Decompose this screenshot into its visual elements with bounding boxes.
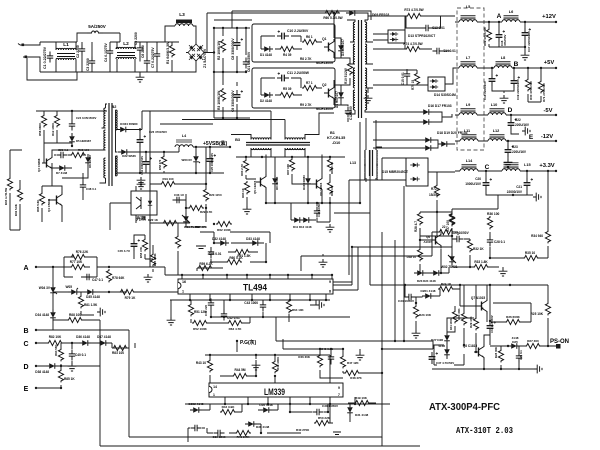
wire below TL494 xyxy=(192,299,350,323)
wire bus dup xyxy=(207,13,214,28)
wire far-left column 2 xyxy=(10,180,20,230)
capacitor C8 xyxy=(234,38,243,50)
junction pin bus xyxy=(331,274,333,276)
junction bottom bus xyxy=(269,299,271,301)
resistor R49 xyxy=(354,400,370,405)
wire L4 net xyxy=(179,147,230,152)
wire driver emitter bus xyxy=(266,202,360,204)
wire D11 C40 net xyxy=(291,203,330,222)
svg-text:D30 4148: D30 4148 xyxy=(256,425,270,429)
svg-text:-5V: -5V xyxy=(543,108,552,114)
svg-text:R36 100: R36 100 xyxy=(487,212,500,216)
wire D18-20 net xyxy=(373,140,455,148)
svg-text:L4: L4 xyxy=(182,134,186,138)
svg-text:C12 2200: C12 2200 xyxy=(349,106,353,120)
svg-text:L3: L3 xyxy=(179,12,185,18)
svg-text:D15 MBR2045CT: D15 MBR2045CT xyxy=(382,170,408,174)
svg-text:L13: L13 xyxy=(350,161,356,165)
ground R51 xyxy=(167,317,176,325)
junction xyxy=(524,21,526,23)
resistor R29p xyxy=(473,317,478,330)
svg-text:E: E xyxy=(529,134,534,141)
zener W04 3V xyxy=(50,284,57,296)
transistor Q3 C3866 xyxy=(42,155,52,171)
svg-text:R49 10K: R49 10K xyxy=(355,396,368,400)
svg-text:R55 100K: R55 100K xyxy=(153,253,157,266)
resistor R72 xyxy=(434,184,439,197)
svg-text:1000U/10V: 1000U/10V xyxy=(465,182,482,186)
transistor Q5 C1815 xyxy=(256,174,266,190)
svg-text:C28 0.1: C28 0.1 xyxy=(494,240,505,244)
svg-text:R82 10K: R82 10K xyxy=(49,335,62,339)
junction xyxy=(459,284,461,286)
svg-text:L9: L9 xyxy=(466,103,470,107)
resistor R24 xyxy=(438,286,454,291)
wire D13 leads xyxy=(373,16,405,40)
svg-text:R46 100K: R46 100K xyxy=(276,356,280,370)
svg-text:R58 47K: R58 47K xyxy=(139,247,143,258)
wire into TL494 pin2 xyxy=(160,291,178,293)
svg-text:MCE13009: MCE13009 xyxy=(316,107,333,111)
capacitor C01 xyxy=(243,58,249,69)
wire to gnd xyxy=(527,194,533,196)
resistor R4 xyxy=(279,46,295,51)
junction xyxy=(513,67,515,69)
junction xyxy=(333,12,335,14)
svg-text:D7 4148: D7 4148 xyxy=(56,171,67,175)
junction xyxy=(222,27,224,29)
resistor R35 xyxy=(523,255,539,260)
transistor Q2 MCE13009 xyxy=(324,85,334,101)
svg-text:16: 16 xyxy=(182,280,186,284)
svg-text:D5 HER987: D5 HER987 xyxy=(76,139,91,143)
wire to L3 xyxy=(160,26,169,42)
ground driver xyxy=(326,224,335,232)
transistor Q9 A1015 xyxy=(431,232,441,248)
svg-text:7: 7 xyxy=(338,393,340,397)
wire pin stub top xyxy=(202,275,204,279)
diode D2 xyxy=(261,92,273,98)
wire PG line and x382 vertical xyxy=(276,317,433,438)
svg-text:D16 D17 FR103: D16 D17 FR103 xyxy=(428,104,452,108)
svg-text:R48 47K: R48 47K xyxy=(350,376,362,380)
svg-text:TL494: TL494 xyxy=(243,283,267,293)
junction xyxy=(139,172,141,174)
junction pin bus xyxy=(202,274,204,276)
wire LM339 lower bus xyxy=(185,403,390,405)
svg-text:R47 12K: R47 12K xyxy=(347,361,359,365)
wire bulk to drive box xyxy=(214,19,252,21)
ground 3.3V filter xyxy=(533,193,541,202)
wire PG down xyxy=(236,341,238,352)
diode D6 FR987 xyxy=(85,154,91,166)
transformer B1 secondary winding xyxy=(365,22,367,42)
wire R-node vertical xyxy=(436,212,438,236)
svg-text:L11: L11 xyxy=(464,129,471,133)
junction xyxy=(316,202,318,204)
svg-text:R3 100K/1W: R3 100K/1W xyxy=(217,90,221,110)
wire stub xyxy=(405,297,416,303)
svg-text:C45 4.7U: C45 4.7U xyxy=(118,249,130,253)
ground +12V filter xyxy=(521,52,530,60)
resistor R69 xyxy=(486,28,491,41)
wire R25 column xyxy=(547,285,549,346)
diode D30 4148 xyxy=(245,421,257,427)
capacitor C27 xyxy=(453,236,464,242)
junction xyxy=(195,146,197,148)
resistor R85 xyxy=(58,369,63,382)
diode D24x xyxy=(430,270,442,276)
resistor R22s xyxy=(162,220,178,225)
svg-text:R19 100: R19 100 xyxy=(162,177,173,181)
wire B2 primary taps xyxy=(98,104,108,183)
junction bottom bus xyxy=(189,299,191,301)
dashed box output chokes xyxy=(457,8,484,150)
junction xyxy=(60,387,62,389)
diode D28 4148 xyxy=(444,346,450,358)
wire W02 net xyxy=(452,195,503,268)
capacitor C21 xyxy=(524,178,533,190)
bridge rectifier Z1 5A/700V xyxy=(188,44,204,61)
capacitor C42 xyxy=(221,310,227,321)
resistor R22x 22 xyxy=(438,229,454,234)
diode D36 4148 xyxy=(79,340,91,346)
junction xyxy=(255,354,257,356)
resistor R37 xyxy=(449,212,454,225)
junction xyxy=(255,375,257,377)
wire B3 top leads xyxy=(231,132,319,140)
wire C8 C9 column xyxy=(214,28,246,118)
ground above opto xyxy=(137,181,146,189)
svg-text:R10 51/2W: R10 51/2W xyxy=(344,68,348,84)
capacitor C30 xyxy=(313,409,324,415)
wire R81 xyxy=(81,292,94,315)
svg-text:R71 270/0.5W: R71 270/0.5W xyxy=(542,83,546,102)
svg-text:D33 4148: D33 4148 xyxy=(246,237,260,241)
terminal -5V xyxy=(555,114,557,116)
wire pin stub bottom xyxy=(189,294,191,300)
junction xyxy=(163,151,165,153)
svg-text:R29 10K: R29 10K xyxy=(469,316,473,328)
svg-text:R28 30K: R28 30K xyxy=(494,347,498,358)
wire pin stub top xyxy=(331,275,333,279)
junction xyxy=(260,432,262,434)
svg-text:B: B xyxy=(23,328,28,335)
svg-text:L7: L7 xyxy=(466,56,470,60)
svg-text:R12 100K: R12 100K xyxy=(51,122,55,136)
diode D34 4148 xyxy=(50,309,56,321)
diode D22 SB36 xyxy=(118,149,130,155)
terminal -12V xyxy=(555,140,557,142)
ground C45 xyxy=(144,274,153,282)
capacitor C1 xyxy=(47,52,53,63)
resistor R52 xyxy=(192,320,208,325)
svg-text:D23 D24 4148: D23 D24 4148 xyxy=(417,279,436,283)
junction lower bus xyxy=(247,403,249,405)
svg-text:C31 2.2U/50V: C31 2.2U/50V xyxy=(490,315,494,333)
svg-text:5A/250V: 5A/250V xyxy=(88,24,106,29)
svg-text:D2 4148: D2 4148 xyxy=(260,99,272,103)
terminal E dot xyxy=(35,387,37,389)
junction bottom bus xyxy=(251,299,253,301)
wire B row xyxy=(36,329,129,331)
svg-text:Q1: Q1 xyxy=(322,37,327,41)
svg-text:D6 FR987: D6 FR987 xyxy=(88,154,92,168)
resistor R50 xyxy=(314,420,330,425)
transformer B3 top winding xyxy=(251,138,271,140)
inductor L1 common-mode choke xyxy=(56,48,76,50)
svg-text:R56 680K: R56 680K xyxy=(38,122,42,136)
capacitor C43 xyxy=(260,301,266,312)
wire C12 leads xyxy=(334,105,348,122)
junction xyxy=(469,266,471,268)
svg-text:C25 1000U/10V: C25 1000U/10V xyxy=(210,153,214,172)
svg-text:C30 10/50V: C30 10/50V xyxy=(322,404,339,408)
svg-text:B1: B1 xyxy=(330,131,336,135)
junction xyxy=(222,117,224,119)
wire vertical x382 xyxy=(381,232,383,349)
transistor Q6 C1815 xyxy=(312,176,322,192)
wire LM339 pin stub xyxy=(247,397,249,404)
capacitor C6 xyxy=(144,57,150,68)
wire LM339 pin stub xyxy=(329,397,331,404)
wire LM339 pin stub xyxy=(224,397,226,404)
terminal PS-ON pad xyxy=(556,344,561,349)
IC U1 TL494 box xyxy=(178,279,333,294)
junction xyxy=(483,368,485,370)
junction xyxy=(404,284,406,286)
wire C5 C6 C7 leads xyxy=(135,42,160,72)
junction xyxy=(381,348,383,350)
svg-text:C20: C20 xyxy=(475,177,481,181)
junction xyxy=(213,27,215,29)
svg-text:C17 2200U/16V: C17 2200U/16V xyxy=(527,31,531,52)
capacitor C40r xyxy=(328,353,334,364)
wire A row xyxy=(36,266,64,268)
svg-text:R4 39: R4 39 xyxy=(283,53,292,57)
ground below TL494 xyxy=(316,301,324,310)
wire below LM339 net xyxy=(188,403,376,442)
wire TL494 left in xyxy=(160,267,178,292)
diode D4 HER107 xyxy=(338,89,344,101)
junction xyxy=(236,117,238,119)
ground C22 xyxy=(522,127,530,136)
inductor L5 xyxy=(459,15,477,22)
transformer B3 core xyxy=(246,143,310,146)
svg-text:A: A xyxy=(23,265,28,272)
resistor R56 xyxy=(41,114,46,127)
svg-text:R7 1: R7 1 xyxy=(306,81,313,85)
diode D16 xyxy=(420,109,432,115)
svg-text:R84 56K: R84 56K xyxy=(54,344,58,356)
resistor R91t xyxy=(234,249,250,254)
resistor R42 xyxy=(220,409,236,414)
svg-text:L15: L15 xyxy=(524,163,531,167)
wire C4 leads xyxy=(110,33,120,72)
wire LM339 pin stub xyxy=(289,397,291,404)
junction xyxy=(71,342,73,344)
ground A block xyxy=(97,308,105,317)
svg-text:D261 4148: D261 4148 xyxy=(421,289,436,293)
junction bottom bus xyxy=(229,299,231,301)
svg-text:C19 2200U/10V: C19 2200U/10V xyxy=(516,79,520,100)
svg-text:Q3 C3866: Q3 C3866 xyxy=(37,158,41,172)
wire D3 D4 leads xyxy=(334,38,341,105)
svg-text:R33 1.8K: R33 1.8K xyxy=(474,260,488,264)
junction lower bus xyxy=(289,403,291,405)
wire W04 D34 column xyxy=(52,267,54,330)
capacitor C12 xyxy=(345,107,351,118)
capacitor C13 xyxy=(422,25,433,31)
wire TL494 bottom bus xyxy=(170,299,330,301)
svg-text:ATX-300P4-PFC: ATX-300P4-PFC xyxy=(429,401,500,413)
svg-text:R42 3.9K: R42 3.9K xyxy=(222,405,236,409)
wire fuse rail xyxy=(77,33,120,42)
junction xyxy=(213,223,215,225)
transformer B3 bottom winding xyxy=(251,148,271,150)
svg-text:MCE13009: MCE13009 xyxy=(316,61,333,65)
wire vertical x370 to PSON xyxy=(369,247,371,285)
capacitor C38 xyxy=(80,181,86,192)
junction bottom bus xyxy=(325,299,327,301)
wire B1 primary taps xyxy=(346,20,355,114)
wire A loop xyxy=(64,257,157,277)
svg-text:+12V: +12V xyxy=(542,14,556,20)
ground +5V filter xyxy=(500,95,509,103)
junction xyxy=(526,170,528,172)
svg-text:W05: W05 xyxy=(66,285,73,289)
diode D32 4148 xyxy=(217,240,229,246)
svg-text:R85 1K: R85 1K xyxy=(64,377,75,381)
svg-text:C24 0.05/1500V: C24 0.05/1500V xyxy=(76,116,96,120)
capacitor C28 xyxy=(487,236,493,247)
svg-text:R25 10K: R25 10K xyxy=(531,312,544,316)
transformer B1 core xyxy=(359,20,362,118)
junction xyxy=(436,211,438,213)
diode D9 FR983 xyxy=(272,175,278,187)
wire TL494 top net xyxy=(197,232,270,271)
ground C row xyxy=(68,363,77,371)
wire left feedback vertical xyxy=(150,111,160,267)
capacitor C25 xyxy=(207,154,216,166)
svg-text:R32 1K: R32 1K xyxy=(473,247,484,251)
optocoupler LED xyxy=(148,198,152,208)
junction xyxy=(524,46,526,48)
ground above LM339 xyxy=(252,362,261,370)
svg-text:C22: C22 xyxy=(515,118,521,122)
junction xyxy=(261,156,263,158)
dual diode D14 S30SC4M xyxy=(428,77,445,91)
terminal +12V xyxy=(555,21,557,23)
capacitor C39x xyxy=(191,425,202,431)
junction pin bus xyxy=(181,274,183,276)
svg-text:A: A xyxy=(497,13,502,20)
wire E row xyxy=(36,387,61,389)
zener W05 xyxy=(68,288,80,295)
svg-text:L1: L1 xyxy=(63,42,69,48)
wire R74 C14 xyxy=(373,43,450,51)
junction xyxy=(342,348,344,350)
capacitor C31p xyxy=(487,321,496,333)
wire reg node xyxy=(420,212,452,247)
svg-text:C40 10/50V: C40 10/50V xyxy=(317,202,321,217)
diode D24 FR980 xyxy=(117,127,129,133)
svg-text:D34 4148: D34 4148 xyxy=(35,313,49,317)
wire Q3 Q4 net xyxy=(42,143,98,222)
terminal +5VSB xyxy=(229,146,231,148)
ground R23 xyxy=(412,330,421,338)
svg-text:C33 1U: C33 1U xyxy=(174,193,184,197)
drive network box 1 xyxy=(252,24,335,62)
svg-text:C15 0.01: C15 0.01 xyxy=(401,72,405,85)
svg-text:47U/50V: 47U/50V xyxy=(503,35,507,46)
wire D09 to B1 xyxy=(358,13,368,20)
wire gnd stub 2 xyxy=(322,254,324,256)
resistor R2 xyxy=(220,39,225,52)
diode D5 HER987 xyxy=(69,133,75,145)
wire EMI rails xyxy=(40,42,160,72)
ground standby xyxy=(137,177,146,185)
svg-text:R23 10K: R23 10K xyxy=(419,313,432,317)
svg-text:R77 10K: R77 10K xyxy=(70,260,83,264)
resistor R28 xyxy=(417,212,422,225)
svg-text:C11 2.2U/50W: C11 2.2U/50W xyxy=(287,71,310,75)
svg-text:1: 1 xyxy=(182,290,184,294)
svg-text:220U/16V: 220U/16V xyxy=(512,150,527,154)
wire box2 net xyxy=(261,78,322,95)
diode D11b xyxy=(291,217,303,223)
svg-text:D262 4148: D262 4148 xyxy=(189,402,204,406)
resistor R47 xyxy=(340,355,345,368)
svg-text:+5VSB(紫): +5VSB(紫) xyxy=(203,140,228,147)
junction xyxy=(512,194,514,196)
junction xyxy=(108,266,110,268)
svg-text:C37 4.7U/50V: C37 4.7U/50V xyxy=(436,361,454,365)
svg-text:LM339: LM339 xyxy=(264,387,285,397)
wire LM339 pin stub xyxy=(267,397,269,404)
transformer B2 primary winding xyxy=(104,108,106,128)
junction xyxy=(223,316,225,318)
wire R28 R37 xyxy=(420,212,452,236)
junction xyxy=(518,368,520,370)
wire C45 R58 R55 xyxy=(134,235,153,272)
svg-text:L2: L2 xyxy=(123,41,129,47)
svg-text:C1 0.22/275V: C1 0.22/275V xyxy=(43,46,47,69)
diode D17 xyxy=(420,119,432,125)
wire LM339 right down xyxy=(354,397,356,404)
node P.G xyxy=(236,340,238,342)
diode D20 xyxy=(438,141,450,147)
svg-text:D37 4148: D37 4148 xyxy=(97,335,111,339)
drive network box 2 xyxy=(252,68,335,108)
wire mid feed 1 xyxy=(120,123,213,125)
junction lower bus xyxy=(309,403,311,405)
inductor L14 xyxy=(460,164,478,171)
wire C row xyxy=(36,343,129,348)
wire B2 secondary taps xyxy=(116,110,118,176)
svg-text:R78 64K: R78 64K xyxy=(112,276,125,280)
wire pin stub bottom xyxy=(309,294,311,300)
resistor R45 xyxy=(272,360,277,373)
svg-text:R2 100K/1W: R2 100K/1W xyxy=(217,40,221,60)
diode D12b xyxy=(300,217,312,223)
resistor R79 xyxy=(119,289,135,294)
svg-text:R31 100K: R31 100K xyxy=(449,318,453,330)
ground C23 xyxy=(504,159,513,167)
resistor R78 xyxy=(106,269,111,282)
svg-text:R81 1.5K: R81 1.5K xyxy=(84,303,98,307)
junction xyxy=(547,170,549,172)
